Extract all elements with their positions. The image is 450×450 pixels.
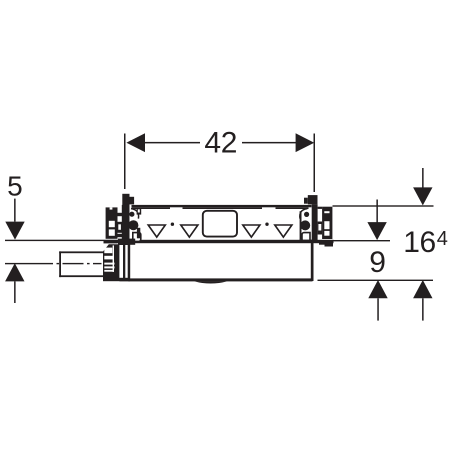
dimension 42 arrowhead left [126, 133, 145, 152]
channel triangle mark 4 [275, 225, 292, 237]
trap body bottom outlet bump [194, 281, 228, 283]
reference line right middle (channel bottom level) [333, 240, 391, 241]
dimension 42 extension line right [314, 134, 316, 193]
trap body left edge [128, 243, 131, 281]
dimension 5 upper arrowhead (down) [5, 222, 24, 240]
channel top edge [132, 205, 312, 207]
right bracket fixing knob (large circle) [300, 220, 310, 230]
dimension 42 line left segment [144, 142, 200, 144]
left bracket lower latch [133, 233, 141, 242]
right bracket wall plate [322, 207, 332, 239]
dimension 9 lower arrowhead (up) [368, 280, 387, 298]
trap body right edge [311, 242, 314, 281]
pipe axis dimension line solid segment [5, 263, 53, 264]
dimension 16 lower arrow tail [422, 298, 424, 320]
dimension 5 lower arrowhead (up) [5, 263, 24, 281]
right bracket left bar [300, 211, 302, 240]
right bracket foot [299, 240, 311, 243]
right bracket pivot (small circle) [304, 212, 309, 217]
dimension 42 line right segment [242, 142, 296, 144]
right bracket adjustment knob [308, 195, 318, 204]
channel dot mark 1 [171, 223, 174, 226]
pipe centerline dash-dot [57, 263, 60, 264]
dimension 5 lower arrow tail [14, 281, 16, 303]
right bracket connectors [318, 207, 323, 209]
dimension 16 upper arrowhead (down) [413, 187, 432, 205]
dimension 16 lower arrowhead (up) [413, 280, 432, 298]
svg-text:5: 5 [7, 170, 23, 201]
right bracket vertical rail [312, 204, 318, 241]
left bracket pivot (small circle) [129, 212, 134, 217]
channel triangle mark 3 [243, 225, 260, 237]
left bracket right tabs [137, 208, 142, 215]
svg-text:16: 16 [403, 226, 436, 259]
dimension 5 upper arrow tail [14, 199, 16, 222]
svg-text:4: 4 [437, 228, 448, 250]
left bracket connectors [118, 213, 123, 216]
dimension 42 arrowhead right [296, 133, 315, 152]
left bracket vertical rail [122, 205, 130, 245]
right bracket lower latch [302, 233, 310, 242]
channel bottom / body top edge [118, 240, 334, 243]
pipe fitting white details [104, 248, 112, 254]
socket collar ring lines [123, 245, 125, 281]
outlet pipe end cap [59, 251, 61, 277]
left bracket fixing knob (large circle) [128, 220, 138, 230]
reference line right bottom (body underside level) [318, 280, 434, 281]
channel inspection opening (rounded rectangle) [203, 211, 237, 237]
pipe fitting body [103, 244, 119, 279]
left bracket adjustment knob [122, 194, 129, 206]
left bracket wall plate [106, 207, 118, 238]
left bracket foot [118, 239, 135, 245]
reference line left (channel bottom level) [5, 240, 130, 241]
svg-text:9: 9 [369, 246, 386, 279]
outlet pipe top wall [59, 251, 103, 253]
dimension 42 extension line left [124, 134, 126, 190]
svg-text:42: 42 [204, 126, 237, 159]
dimension 9 upper arrowhead (down) [367, 222, 386, 240]
dimension 16 upper arrow tail [422, 168, 424, 188]
reference line right top (channel top level) [333, 205, 434, 206]
trap body bottom edge [128, 278, 312, 281]
outlet pipe bottom wall [59, 275, 103, 277]
dimension 9 upper arrow tail [376, 200, 378, 223]
channel triangle mark 1 [148, 225, 165, 237]
dimension 9 lower arrow tail [377, 298, 379, 320]
channel triangle mark 2 [181, 225, 198, 237]
channel dot mark 2 [265, 223, 268, 226]
channel top edge tabs [132, 207, 171, 209]
